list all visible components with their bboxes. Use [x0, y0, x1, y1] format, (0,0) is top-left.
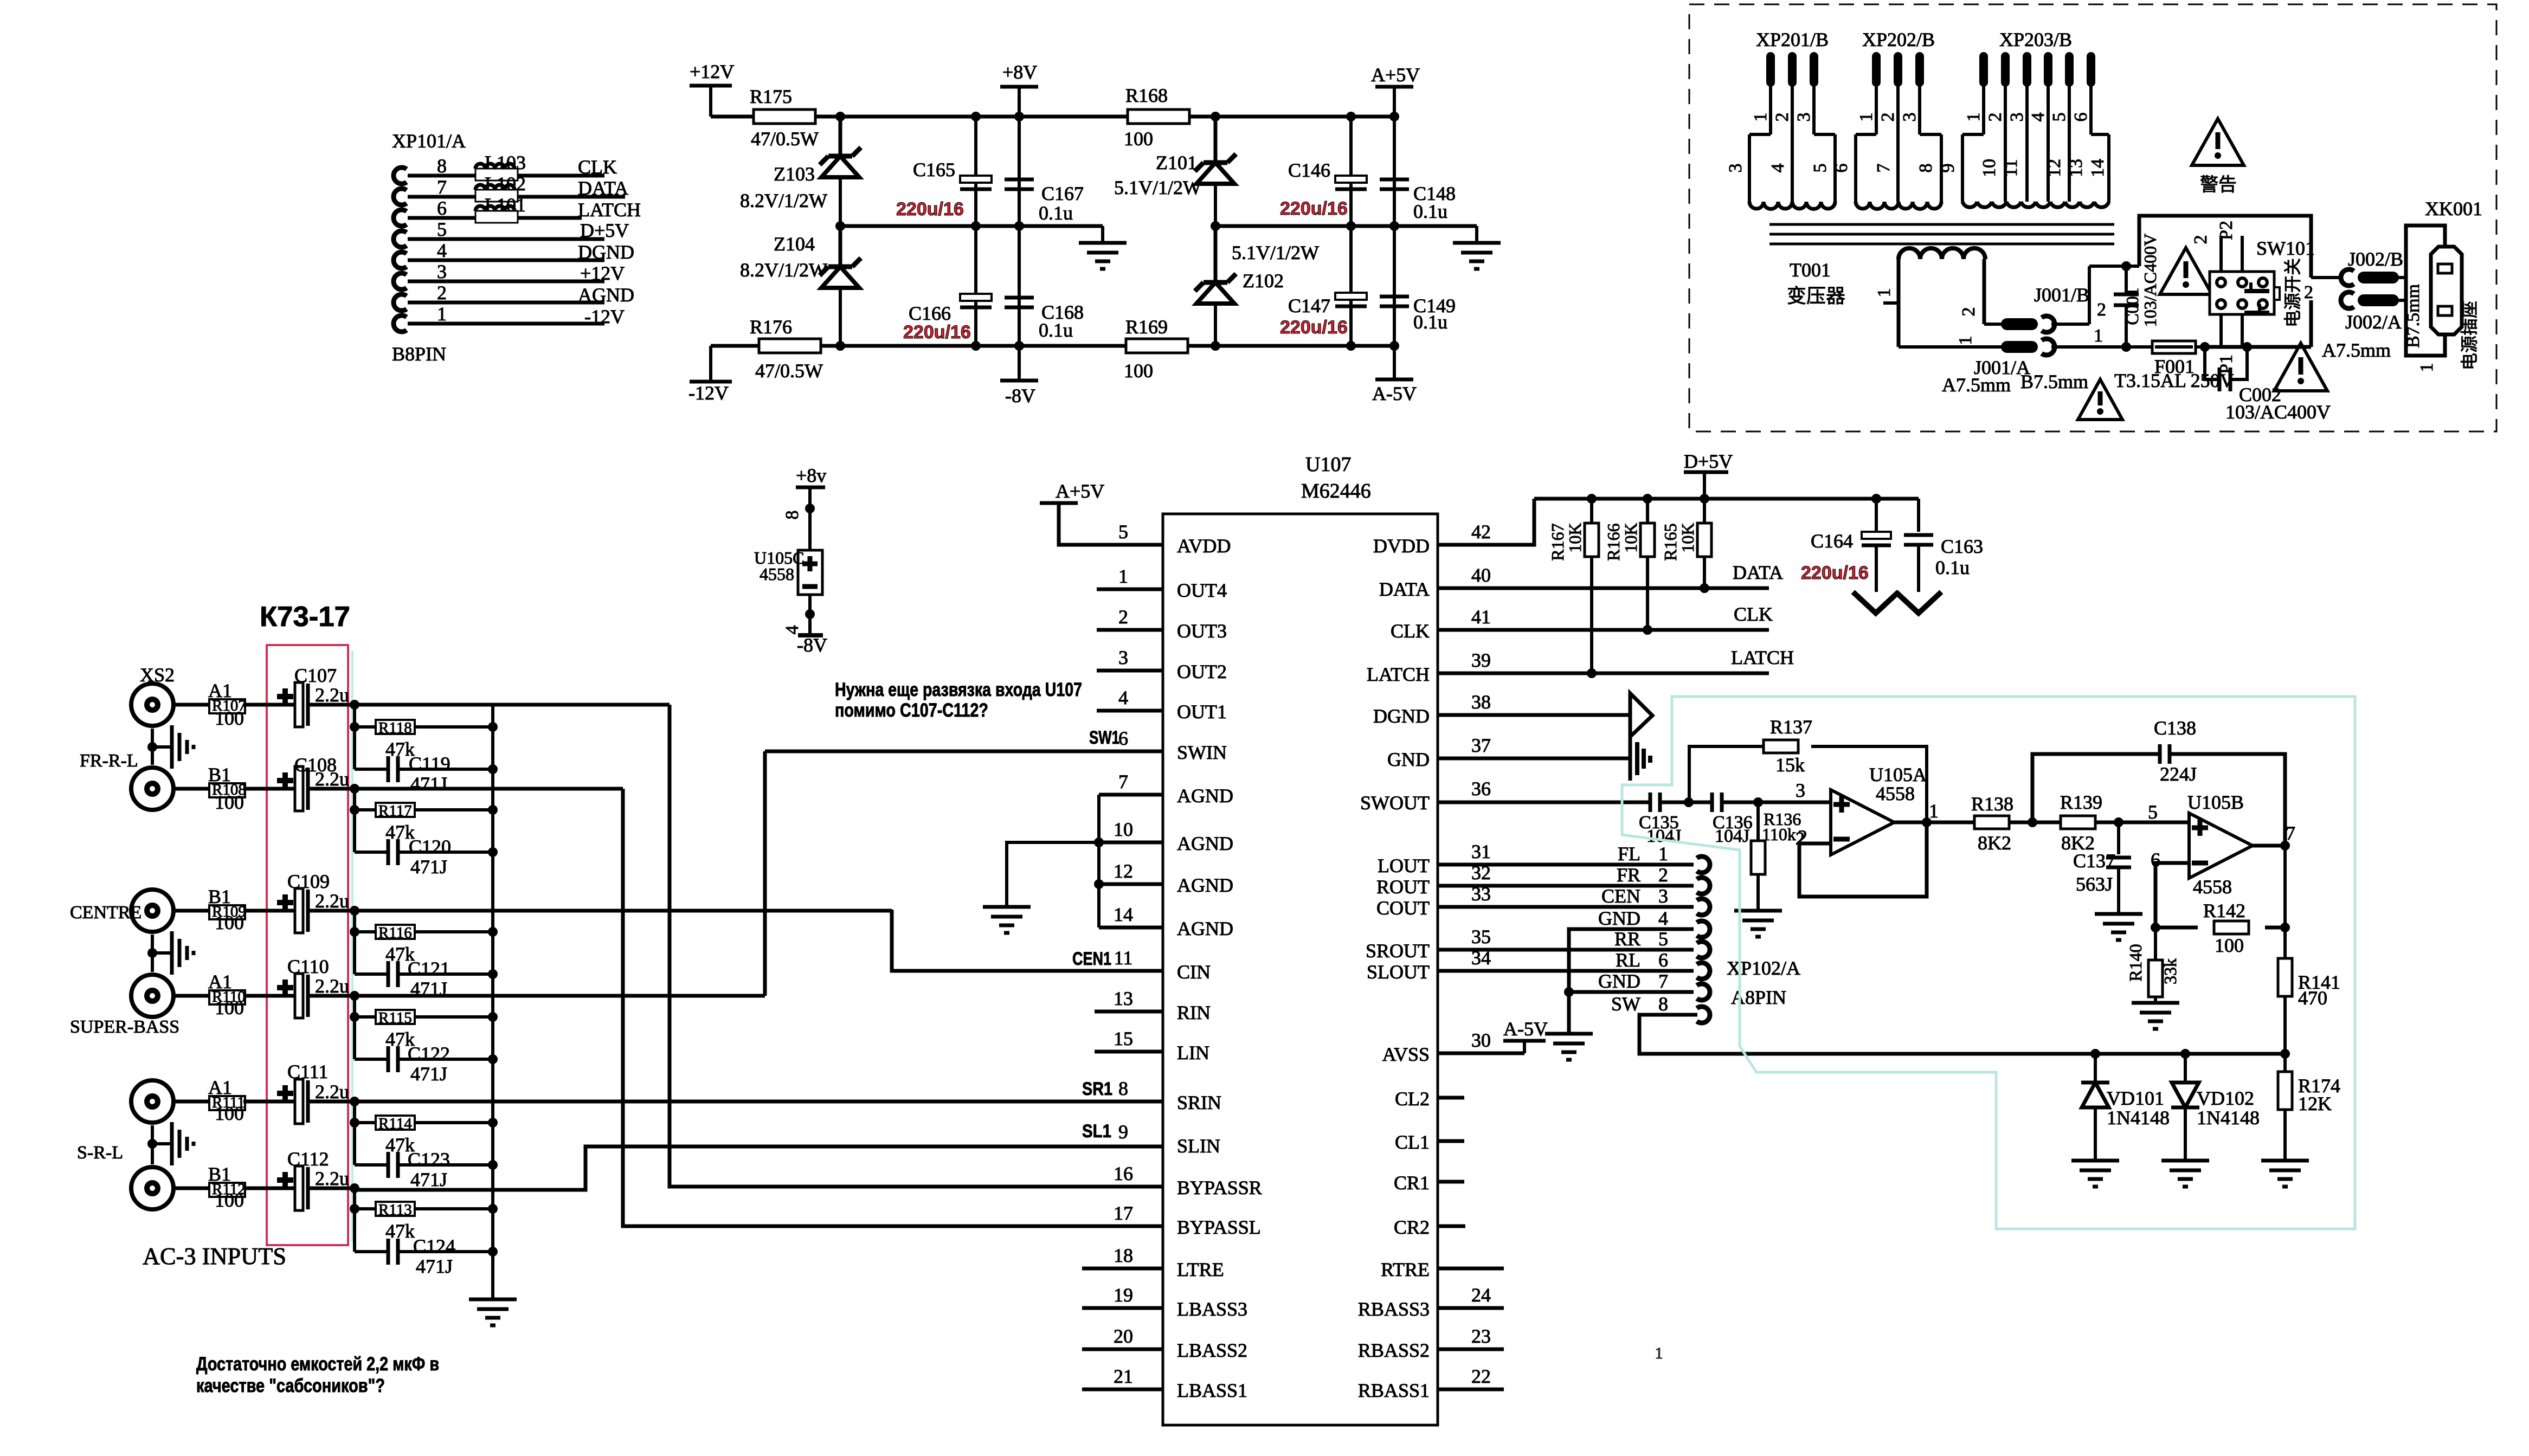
svg-text:12K: 12K [2298, 1093, 2332, 1114]
resistor R108 value [215, 791, 244, 813]
pin4 label U105C [782, 626, 802, 635]
wire SRIN [355, 1079, 1163, 1101]
capacitor C166 [903, 294, 992, 351]
svg-text:6: 6 [437, 197, 447, 219]
wire U105C bottom [805, 595, 815, 635]
svg-text:8: 8 [437, 155, 447, 177]
svg-text:RBASS1: RBASS1 [1358, 1380, 1430, 1401]
capacitor C124 [355, 1235, 493, 1277]
connector XP101/A label [392, 130, 466, 365]
jack SRL B1 input [77, 1143, 355, 1210]
wire AGND pin12 [1099, 882, 1163, 886]
svg-text:1: 1 [1655, 1344, 1663, 1362]
svg-text:19: 19 [1114, 1284, 1133, 1306]
svg-text:XP201/B: XP201/B [1756, 29, 1829, 50]
connector J002/B [2311, 248, 2406, 286]
IC U107 label [1301, 453, 1371, 502]
svg-text:CENTRE: CENTRE [70, 903, 141, 923]
svg-text:C137: C137 [2073, 850, 2115, 872]
svg-text:42: 42 [1471, 521, 1491, 543]
svg-text:13: 13 [1114, 988, 1133, 1009]
svg-text:AGND: AGND [1177, 918, 1233, 939]
svg-text:LIN: LIN [1177, 1042, 1209, 1064]
svg-text:220u/16: 220u/16 [896, 199, 964, 220]
svg-text:23: 23 [1471, 1325, 1491, 1347]
warning triangle near C002 [2274, 343, 2327, 391]
resistor R176 [750, 316, 823, 382]
svg-text:SWIN: SWIN [1177, 742, 1227, 763]
svg-text:10: 10 [1979, 159, 1999, 177]
svg-text:C109: C109 [287, 871, 330, 892]
svg-text:CR2: CR2 [1394, 1216, 1430, 1238]
svg-text:R118: R118 [378, 719, 412, 737]
svg-text:5: 5 [1810, 164, 1830, 173]
svg-text:GND: GND [1598, 907, 1640, 929]
wire C110 to SWIN [355, 994, 765, 998]
zener Z103 [740, 117, 861, 211]
svg-text:LATCH: LATCH [1731, 647, 1794, 668]
wire SWOUT [1438, 801, 1650, 804]
svg-text:CEN1: CEN1 [1072, 949, 1111, 969]
capacitor C121 [355, 958, 493, 1000]
svg-text:37: 37 [1471, 735, 1491, 756]
svg-text:P2: P2 [2216, 221, 2236, 240]
svg-text:R139: R139 [2060, 791, 2102, 813]
wire OUT3 [1097, 628, 1163, 632]
capacitor C137 [2073, 822, 2131, 914]
svg-text:C122: C122 [408, 1043, 450, 1065]
svg-text:C164: C164 [1811, 530, 1853, 552]
wire SLOUT [1438, 969, 1694, 973]
svg-text:AC-3 INPUTS: AC-3 INPUTS [143, 1243, 286, 1270]
svg-text:16: 16 [1114, 1163, 1133, 1184]
svg-text:L101: L101 [485, 194, 526, 216]
svg-text:1: 1 [1874, 288, 1894, 298]
svg-text:XP102/A: XP102/A [1727, 957, 1800, 979]
wire Z104-bot [839, 288, 842, 346]
wire CL2 [1438, 1096, 1464, 1100]
wire DVDD [1438, 499, 1534, 545]
svg-text:5: 5 [2049, 113, 2069, 122]
resistor R107 value [215, 707, 244, 729]
svg-text:21: 21 [1114, 1365, 1133, 1387]
power A+5V pin5 [1040, 480, 1163, 545]
power A+5V [1371, 64, 1420, 117]
capacitor C002 [2205, 347, 2331, 423]
wire node6 drop [350, 1188, 359, 1252]
svg-text:471J: 471J [410, 1169, 447, 1190]
svg-text:R167: R167 [1548, 523, 1567, 561]
node C107 out [350, 700, 359, 710]
svg-text:C167: C167 [1041, 183, 1084, 204]
svg-text:15: 15 [1114, 1028, 1133, 1049]
svg-text:6: 6 [2071, 113, 2091, 122]
svg-text:CL2: CL2 [1395, 1088, 1430, 1110]
wire RIN [1095, 1010, 1163, 1014]
node C135-C136 [1684, 797, 1694, 807]
svg-text:6: 6 [1118, 727, 1128, 749]
svg-text:GND: GND [1598, 970, 1640, 992]
dashed boundary box [1689, 4, 2496, 431]
jack SRL A1 input [131, 1077, 355, 1124]
zener Z101 [1114, 117, 1236, 198]
svg-text:RIN: RIN [1177, 1002, 1211, 1023]
svg-text:B8PIN: B8PIN [392, 343, 446, 365]
wire OUT2 [1097, 669, 1163, 673]
wire mid-left [840, 224, 1103, 228]
svg-text:5.1V/1/2W: 5.1V/1/2W [1114, 177, 1201, 198]
svg-text:D+5V: D+5V [1684, 450, 1733, 472]
wire node1 drop [350, 705, 359, 769]
transformer secondary XP203/B [1938, 29, 2109, 207]
IC U107 outline [1163, 514, 1438, 1425]
svg-text:помимо С107-С112?: помимо С107-С112? [835, 700, 988, 721]
svg-text:8.2V/1/2W: 8.2V/1/2W [740, 190, 827, 211]
svg-text:100: 100 [215, 1189, 244, 1211]
ground VD101 [2071, 1161, 2119, 1187]
wire AVSS [1438, 1052, 1524, 1055]
svg-text:DVDD: DVDD [1373, 535, 1430, 557]
svg-text:FR: FR [1617, 864, 1640, 886]
svg-text:220u/16: 220u/16 [1801, 563, 1869, 583]
capacitor C107 [294, 665, 349, 706]
svg-text:+8V: +8V [1002, 61, 1037, 83]
svg-text:R175: R175 [750, 86, 792, 107]
svg-text:1: 1 [1751, 113, 1771, 122]
svg-text:SW1: SW1 [1089, 727, 1119, 748]
svg-text:качестве "сабсоников"?: качестве "сабсоников"? [196, 1375, 385, 1396]
svg-text:C107: C107 [294, 665, 337, 686]
label J001/A [1942, 357, 2088, 396]
svg-text:FR-R-L: FR-R-L [80, 751, 138, 771]
transformer T001 label [1787, 259, 1845, 307]
capacitor C111 [287, 1061, 349, 1103]
capacitor C167 [1005, 112, 1084, 346]
svg-text:1: 1 [1856, 113, 1876, 122]
wire CLK [1438, 603, 1773, 630]
capacitor C149 [1380, 295, 1456, 333]
node C108 out [350, 784, 359, 794]
svg-text:R138: R138 [1971, 793, 2013, 815]
svg-text:5: 5 [437, 218, 447, 240]
svg-text:Достаточно емкостей 2,2 мкФ в: Достаточно емкостей 2,2 мкФ в [196, 1354, 439, 1375]
svg-text:C119: C119 [409, 753, 451, 775]
wire AGND pin7 [1099, 793, 1163, 797]
wire CENTRE to CIN [355, 909, 892, 913]
node mid-left [835, 221, 845, 231]
svg-text:R117: R117 [378, 802, 412, 820]
svg-text:0.1u: 0.1u [1039, 202, 1073, 224]
svg-text:11: 11 [1114, 947, 1133, 969]
svg-text:2: 2 [437, 282, 447, 304]
node C110 out [350, 991, 359, 1001]
svg-text:4: 4 [2028, 113, 2048, 122]
svg-text:1N4148: 1N4148 [2197, 1107, 2260, 1129]
wire to U105A plus [1758, 801, 1831, 804]
svg-text:LATCH: LATCH [1367, 663, 1430, 685]
connector J001 upper [2007, 266, 2126, 332]
jack XS2 B1 input [80, 751, 355, 811]
wire U105A out [1894, 817, 1974, 827]
resistor R140 [2126, 927, 2180, 1003]
svg-text:36: 36 [1471, 778, 1491, 800]
svg-text:7: 7 [2286, 822, 2295, 844]
warning triangle near C001 [2160, 248, 2212, 294]
svg-text:U105A: U105A [1869, 764, 1927, 785]
capacitor C122 [355, 1043, 493, 1085]
svg-text:ROUT: ROUT [1376, 876, 1430, 898]
svg-text:B7.5mm: B7.5mm [2403, 284, 2423, 348]
svg-text:8K2: 8K2 [1978, 832, 2011, 854]
svg-text:FL: FL [1618, 843, 1640, 865]
wire ground bus [488, 705, 498, 1257]
svg-text:7: 7 [1118, 771, 1128, 793]
capacitor C138 loop [2032, 717, 2285, 846]
svg-text:RL: RL [1616, 949, 1640, 971]
svg-text:470: 470 [2298, 987, 2327, 1009]
svg-text:SUPER-BASS: SUPER-BASS [70, 1017, 179, 1037]
svg-text:RR: RR [1614, 928, 1640, 950]
inductor L103 [475, 152, 526, 181]
svg-text:A+5V: A+5V [1056, 480, 1104, 502]
svg-text:AGND: AGND [578, 284, 634, 306]
wire R139-U105B [2095, 817, 2189, 827]
wire U105B out [2253, 841, 2290, 851]
svg-text:+12V: +12V [690, 61, 734, 82]
svg-text:5: 5 [2148, 801, 2158, 823]
svg-text:1: 1 [1929, 800, 1939, 822]
svg-text:100: 100 [215, 707, 244, 729]
svg-text:R114: R114 [378, 1115, 412, 1132]
svg-text:10K: 10K [1565, 523, 1585, 552]
cyan line near box [351, 650, 353, 1241]
resistor R109 value [215, 912, 244, 933]
svg-text:100: 100 [215, 791, 244, 813]
svg-text:41: 41 [1471, 606, 1491, 628]
wire SWIN drop [763, 751, 767, 996]
svg-text:S-R-L: S-R-L [77, 1143, 123, 1163]
power -8V U105C [797, 634, 827, 656]
node bot-Z104 [835, 341, 845, 351]
svg-text:R113: R113 [378, 1201, 412, 1219]
resistor R168 [1124, 85, 1189, 150]
svg-text:Z103: Z103 [774, 163, 815, 185]
op-amp U105A [1796, 764, 1939, 855]
svg-text:40: 40 [1471, 564, 1491, 586]
wire GND4 [1564, 929, 1694, 1034]
inductor L101 [475, 194, 526, 223]
page number [1655, 1344, 1663, 1362]
svg-text:6: 6 [1831, 164, 1851, 173]
jack SUPER-BASS input [70, 971, 355, 1037]
svg-text:CLK: CLK [578, 156, 617, 178]
svg-text:1: 1 [1118, 565, 1128, 587]
capacitor C135 [1639, 793, 1689, 846]
svg-text:1: 1 [437, 303, 447, 325]
svg-text:RBASS3: RBASS3 [1358, 1298, 1430, 1320]
svg-text:CEN: CEN [1601, 885, 1640, 907]
node top-Z101 [1211, 112, 1220, 121]
svg-text:LATCH: LATCH [578, 199, 641, 221]
capacitor C163 [1904, 499, 1983, 592]
capacitor C165 [896, 112, 992, 346]
svg-text:К73-17: К73-17 [260, 601, 350, 633]
wire node3 drop [350, 911, 359, 974]
socket XK001 label [2425, 198, 2482, 220]
svg-text:5: 5 [1658, 928, 1668, 950]
svg-text:3: 3 [1118, 647, 1128, 668]
wire COUT [1438, 905, 1694, 909]
svg-text:7: 7 [1658, 970, 1668, 992]
wire Z101-Z102 [1214, 184, 1217, 282]
svg-text:-12V: -12V [584, 306, 625, 327]
svg-text:8: 8 [1658, 993, 1668, 1015]
resistor R111 value [215, 1103, 244, 1124]
svg-text:10: 10 [1114, 819, 1133, 840]
capacitor C136 [1689, 793, 1758, 846]
node top-Z103 [835, 112, 845, 121]
resistor R115 [355, 1009, 493, 1050]
svg-text:C110: C110 [287, 956, 329, 977]
power switch box wire [2126, 216, 2311, 347]
IC U105C [754, 548, 822, 595]
svg-text:SWOUT: SWOUT [1360, 792, 1430, 814]
svg-text:8: 8 [782, 511, 802, 520]
svg-text:R115: R115 [378, 1009, 412, 1027]
svg-text:C120: C120 [409, 836, 451, 858]
node C109 out [350, 906, 359, 916]
connector J002/A [2304, 282, 2406, 361]
svg-text:A-5V: A-5V [1372, 383, 1417, 404]
inductor L102 [475, 173, 526, 202]
transformer secondary XP202/B [1831, 29, 1941, 209]
svg-text:A7.5mm: A7.5mm [2322, 339, 2391, 361]
svg-text:C121: C121 [408, 958, 450, 980]
svg-text:DATA: DATA [1733, 562, 1783, 583]
svg-text:XK001: XK001 [2425, 198, 2482, 220]
svg-text:8: 8 [1916, 164, 1936, 173]
svg-text:24: 24 [1471, 1284, 1491, 1306]
connector XP101/A pins [394, 155, 625, 332]
wire Z102-bot [1211, 304, 1220, 351]
svg-text:471J: 471J [410, 856, 447, 878]
capacitor C108 [294, 754, 349, 790]
ground GND37 [1637, 742, 1650, 775]
power +8v U105C [796, 465, 826, 550]
svg-text:5: 5 [1118, 521, 1128, 543]
svg-text:SROUT: SROUT [1366, 940, 1430, 962]
svg-text:220u/16: 220u/16 [1280, 317, 1348, 338]
wire LOUT [1438, 863, 1694, 867]
svg-text:7: 7 [437, 176, 447, 198]
node mid-right-z [1211, 221, 1220, 231]
svg-text:M62446: M62446 [1301, 480, 1371, 502]
svg-text:33k: 33k [2160, 958, 2180, 984]
svg-text:3: 3 [1796, 779, 1805, 801]
svg-text:2: 2 [1959, 307, 1979, 317]
svg-text:AVDD: AVDD [1177, 535, 1231, 557]
node R136 top [1753, 797, 1763, 807]
svg-text:471J: 471J [416, 1255, 453, 1277]
svg-text:18: 18 [1114, 1245, 1133, 1266]
ground XS2 pair [147, 725, 194, 769]
svg-text:DATA: DATA [578, 177, 628, 199]
wire SLIN [355, 1121, 1163, 1190]
resistor R166 [1604, 499, 1655, 635]
zener Z104 [740, 226, 861, 288]
connector XP102/A contacts [1598, 843, 1710, 1023]
svg-text:C138: C138 [2154, 717, 2196, 739]
svg-text:A+5V: A+5V [1371, 64, 1420, 86]
svg-text:C163: C163 [1941, 536, 1983, 557]
svg-text:C111: C111 [287, 1061, 328, 1083]
svg-text:LBASS3: LBASS3 [1177, 1298, 1247, 1320]
svg-text:4558: 4558 [760, 564, 794, 584]
svg-text:22: 22 [1471, 1365, 1491, 1387]
cyan outline audio section [1622, 697, 2355, 1229]
wire mid-right [1215, 224, 1477, 228]
svg-text:BYPASSR: BYPASSR [1177, 1177, 1262, 1199]
wire SWIN net SW1 [765, 727, 1163, 751]
fuse F001 [2114, 341, 2234, 391]
svg-text:SW101: SW101 [2256, 237, 2315, 259]
power A-5V [1372, 346, 1417, 404]
svg-text:-8V: -8V [797, 634, 827, 656]
wire BYPASSR route [670, 705, 1163, 1187]
connector XP102/A labels [1727, 957, 1800, 1008]
svg-text:电源插座: 电源插座 [2460, 301, 2479, 370]
svg-text:R116: R116 [378, 924, 412, 942]
net labels XP101 [578, 156, 641, 327]
svg-text:C146: C146 [1288, 159, 1330, 181]
svg-text:1: 1 [1964, 113, 1984, 122]
svg-text:Z102: Z102 [1243, 270, 1284, 292]
svg-text:2: 2 [2191, 235, 2211, 244]
svg-text:220u/16: 220u/16 [1280, 198, 1348, 219]
transformer secondary XP201/B [1726, 29, 1835, 209]
capacitor C119 [355, 753, 493, 795]
resistor R138 [1971, 793, 2013, 854]
power +12V [690, 61, 734, 117]
svg-text:SRIN: SRIN [1177, 1092, 1221, 1113]
svg-text:GND: GND [1387, 749, 1430, 770]
wire LIN [1095, 1050, 1163, 1054]
svg-text:U107: U107 [1305, 453, 1351, 476]
wire bus to ground [491, 1252, 494, 1299]
svg-text:8: 8 [1118, 1078, 1128, 1099]
svg-text:CLK: CLK [1734, 603, 1773, 625]
warning triangle below F001 [2078, 379, 2122, 420]
resistor R165 [1661, 499, 1711, 593]
IC U107 right pin labels [1358, 521, 1491, 1401]
svg-text:14: 14 [2088, 159, 2108, 177]
jack CENTRE input [70, 886, 355, 933]
svg-text:AVSS: AVSS [1382, 1043, 1430, 1065]
svg-text:C165: C165 [913, 159, 955, 181]
ground C137 [2095, 914, 2142, 940]
svg-text:104J: 104J [1715, 826, 1749, 846]
wire AGND bus [1094, 795, 1104, 927]
IC U107 left pin labels [1114, 521, 1262, 1401]
svg-text:变压器: 变压器 [1787, 285, 1845, 307]
switch P2 wires [2191, 221, 2242, 272]
svg-text:U105B: U105B [2187, 791, 2244, 813]
svg-text:SL1: SL1 [1082, 1121, 1111, 1142]
svg-text:D+5V: D+5V [580, 220, 629, 241]
wire SW long [1639, 1015, 2290, 1059]
svg-text:4: 4 [1658, 907, 1668, 929]
svg-text:J002/A: J002/A [2345, 311, 2402, 333]
